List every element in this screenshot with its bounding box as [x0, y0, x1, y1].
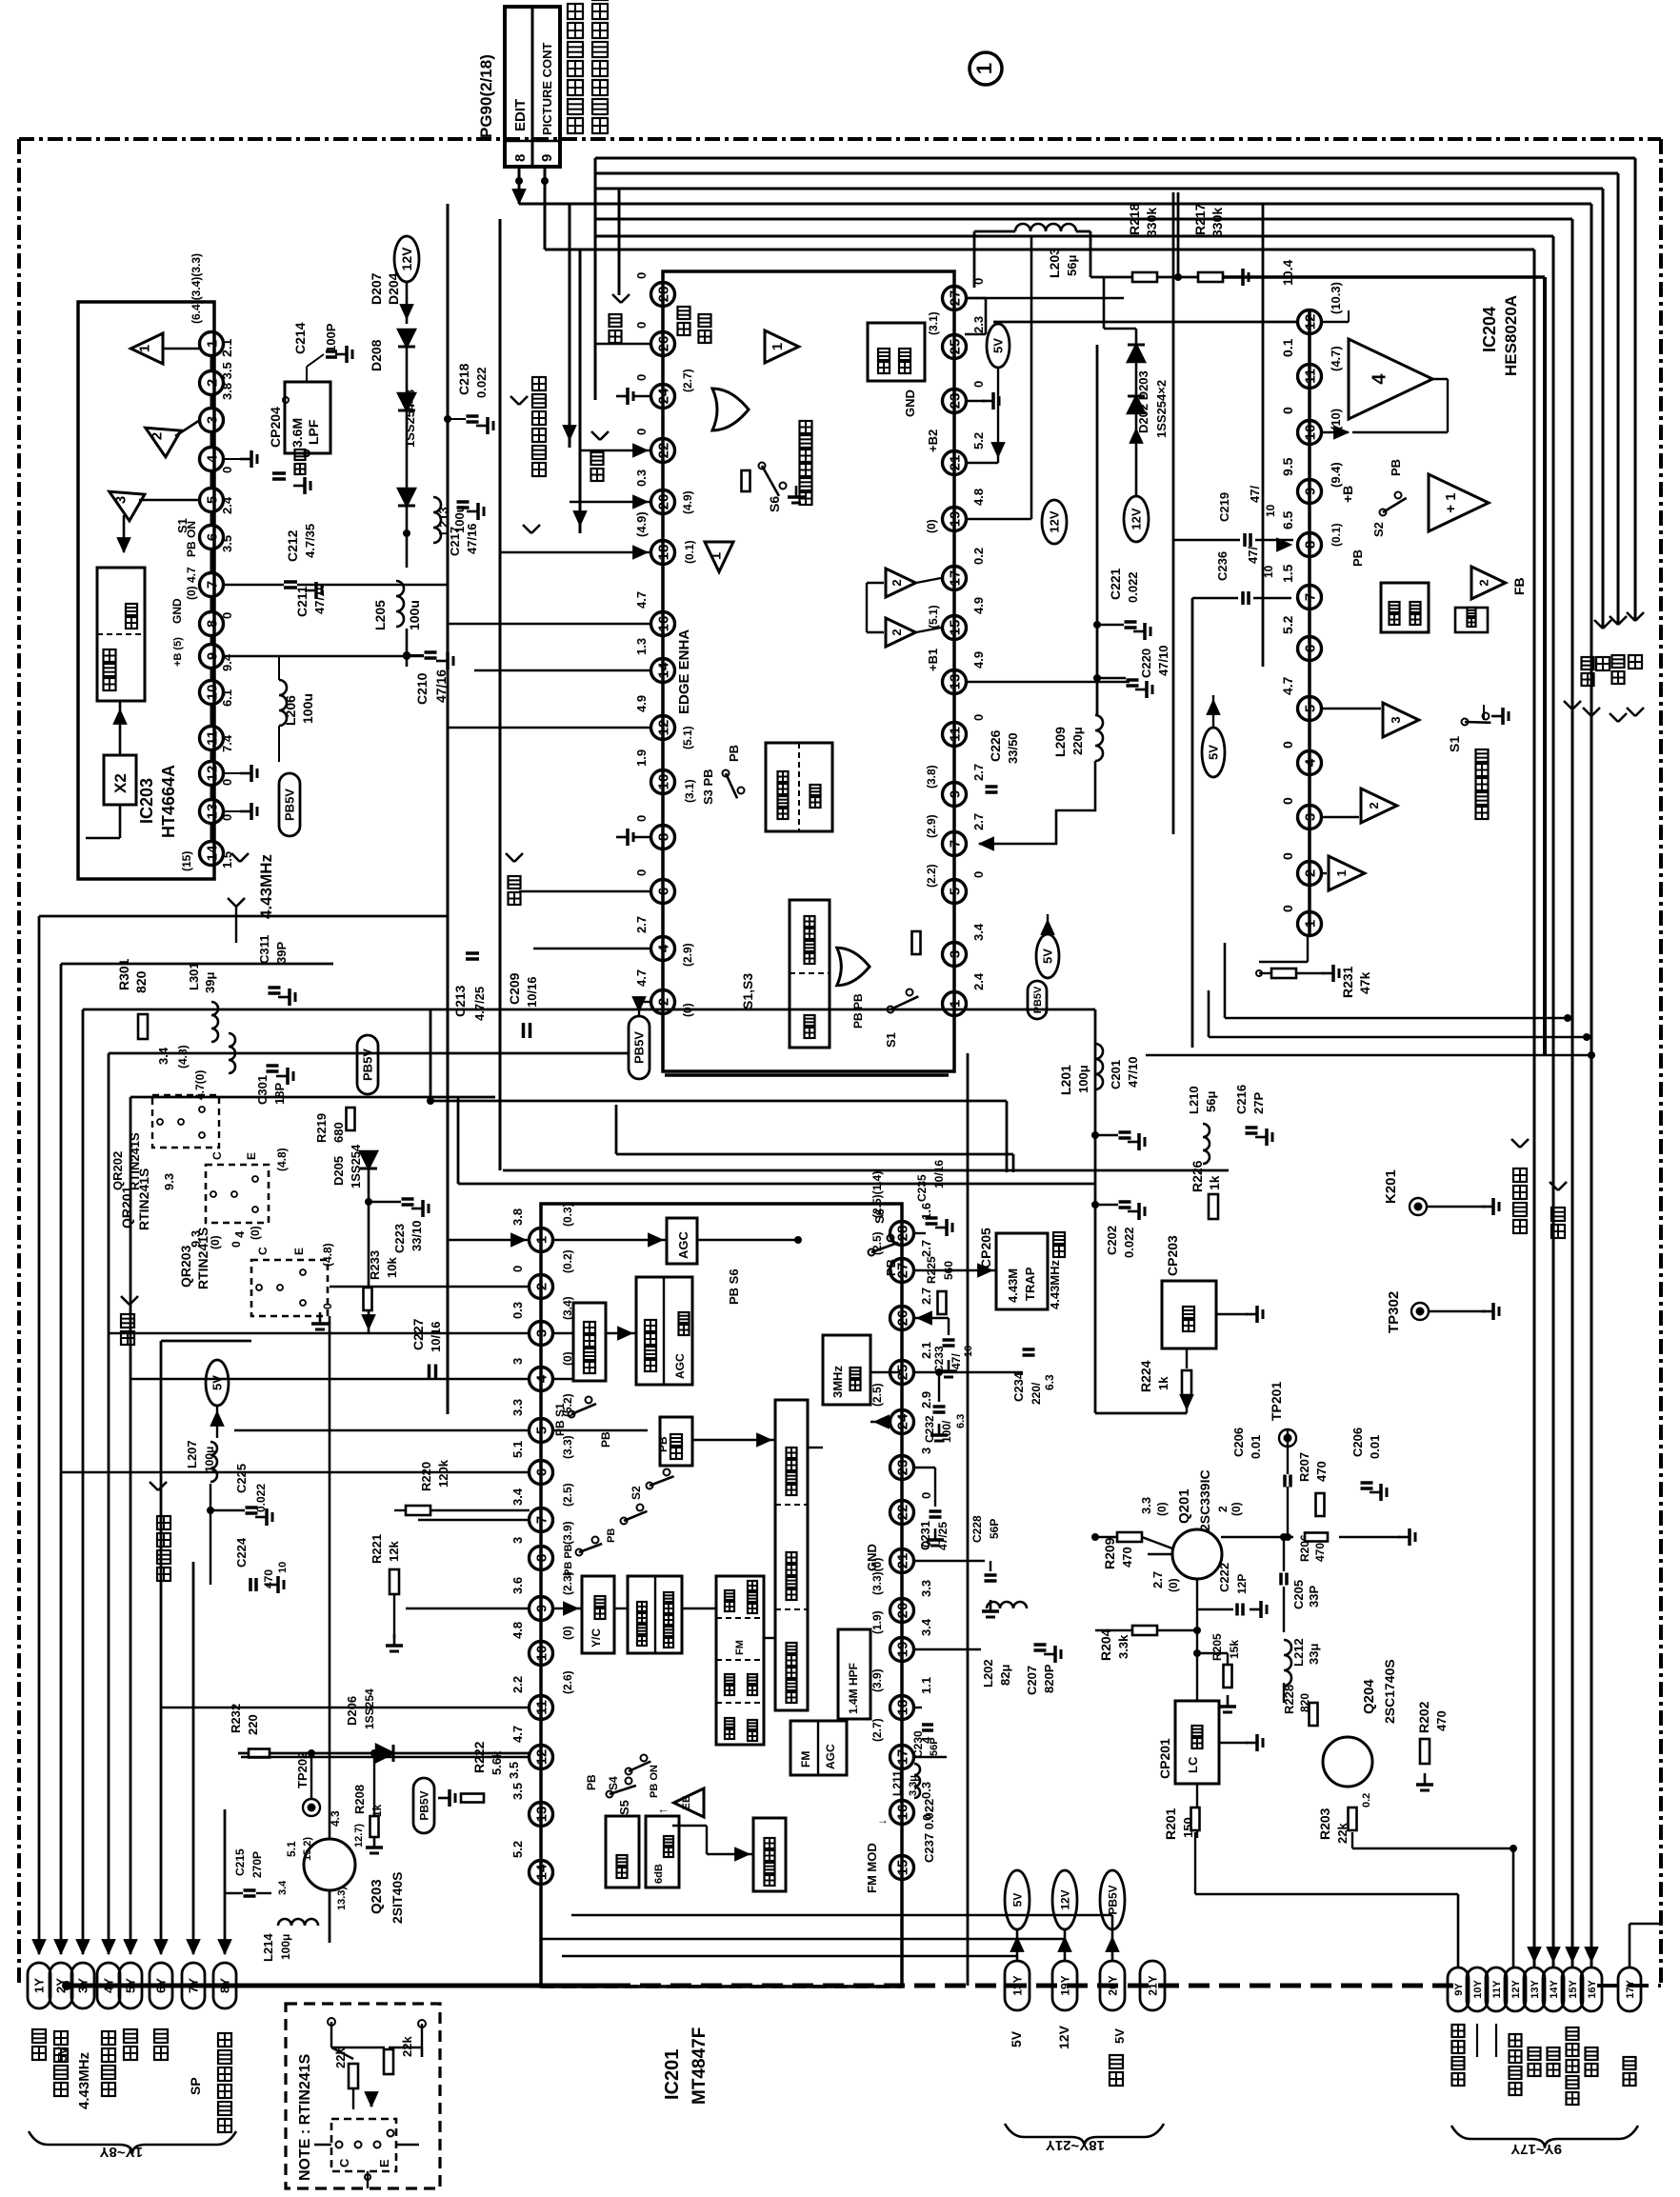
- svg-text:PB PB: PB PB: [563, 1544, 574, 1576]
- svg-text:PB: PB: [599, 1431, 612, 1448]
- svg-text:S5: S5: [617, 1800, 631, 1815]
- svg-text:C: C: [256, 1247, 270, 1255]
- svg-text:3.3: 3.3: [919, 1580, 933, 1597]
- svg-text:270P: 270P: [250, 1851, 264, 1878]
- svg-text:6.1: 6.1: [220, 689, 234, 707]
- svg-text:(0.2): (0.2): [561, 1249, 574, 1273]
- svg-text:2: 2: [655, 998, 671, 1006]
- svg-text:2: 2: [204, 379, 220, 387]
- svg-text:19Y: 19Y: [1058, 1975, 1071, 1995]
- svg-text:(6.4)(3.4)(3.3): (6.4)(3.4)(3.3): [190, 253, 203, 324]
- svg-text:3: 3: [112, 496, 129, 504]
- svg-text:4: 4: [533, 1374, 550, 1383]
- svg-text:220μ: 220μ: [1070, 727, 1085, 755]
- svg-text:FM MOD: FM MOD: [865, 1843, 879, 1893]
- svg-text:82μ: 82μ: [998, 1665, 1012, 1686]
- svg-text:IC201: IC201: [662, 2049, 683, 2100]
- svg-text:1.1: 1.1: [919, 1677, 933, 1694]
- svg-text:E: E: [292, 1248, 306, 1255]
- svg-text:0.022: 0.022: [1122, 1227, 1136, 1258]
- svg-text:FM: FM: [734, 1640, 746, 1655]
- svg-text:3: 3: [533, 1329, 550, 1337]
- svg-text:IC203: IC203: [137, 778, 156, 824]
- svg-text:220/: 220/: [1030, 1382, 1043, 1405]
- svg-text:4: 4: [204, 454, 220, 463]
- svg-text:S2: S2: [1371, 522, 1386, 537]
- svg-text:PB ON: PB ON: [649, 1765, 660, 1798]
- svg-text:1SS254×3: 1SS254×3: [403, 389, 417, 448]
- svg-text:560: 560: [942, 1261, 955, 1280]
- svg-text:28: 28: [655, 287, 671, 303]
- svg-text:(2.7): (2.7): [681, 369, 694, 392]
- svg-text:3.3: 3.3: [1139, 1497, 1153, 1514]
- svg-text:33/10: 33/10: [410, 1220, 424, 1251]
- svg-text:0: 0: [220, 612, 234, 619]
- svg-text:1: 1: [1334, 869, 1349, 876]
- svg-text:C228: C228: [970, 1515, 984, 1543]
- svg-text:C216: C216: [1234, 1085, 1249, 1114]
- svg-text:27: 27: [947, 290, 963, 307]
- svg-text:0.3: 0.3: [919, 1782, 933, 1799]
- svg-text:PB: PB: [606, 1528, 617, 1543]
- svg-text:13Y: 13Y: [1010, 1975, 1024, 1995]
- svg-text:5V: 5V: [991, 338, 1006, 353]
- svg-text:C234: C234: [1011, 1371, 1026, 1402]
- svg-text:15: 15: [947, 620, 963, 636]
- svg-text:0: 0: [634, 429, 649, 435]
- svg-text:5: 5: [533, 1427, 550, 1434]
- svg-text:19: 19: [894, 1642, 910, 1658]
- svg-text:3: 3: [1389, 716, 1403, 723]
- svg-text:3: 3: [947, 950, 963, 958]
- svg-text:2.7: 2.7: [1150, 1571, 1165, 1588]
- svg-text:C214: C214: [292, 322, 308, 354]
- svg-text:0.3: 0.3: [510, 1302, 525, 1319]
- svg-text:C226: C226: [988, 729, 1003, 762]
- svg-text:S1: S1: [1447, 736, 1462, 752]
- svg-text:1: 1: [136, 345, 152, 352]
- svg-text:C225: C225: [234, 1464, 249, 1493]
- svg-text:R201: R201: [1163, 1808, 1178, 1840]
- svg-text:S2: S2: [630, 1486, 643, 1500]
- svg-text:0: 0: [634, 374, 649, 381]
- svg-text:4.43MHz: 4.43MHz: [1048, 1259, 1062, 1309]
- svg-text:GND: GND: [865, 1544, 879, 1571]
- svg-text:PB5V: PB5V: [632, 1031, 647, 1064]
- svg-text:13: 13: [947, 674, 963, 690]
- svg-text:R231: R231: [1340, 966, 1355, 998]
- svg-text:12V: 12V: [1048, 510, 1062, 532]
- svg-text:13: 13: [204, 804, 220, 820]
- svg-text:4.7: 4.7: [1280, 676, 1295, 695]
- svg-text:2.4: 2.4: [971, 972, 986, 990]
- svg-text:1: 1: [770, 343, 786, 350]
- svg-text:8: 8: [533, 1554, 550, 1562]
- svg-text:0: 0: [971, 871, 986, 878]
- svg-text:S4: S4: [607, 1776, 620, 1790]
- svg-text:3.8 3.5: 3.8 3.5: [220, 362, 234, 400]
- svg-text:(4.8): (4.8): [176, 1045, 190, 1069]
- svg-text:5.1: 5.1: [285, 1841, 298, 1857]
- svg-text:2: 2: [890, 629, 904, 635]
- svg-text:10: 10: [277, 1562, 289, 1573]
- svg-text:R225: R225: [925, 1256, 938, 1284]
- svg-text:↓: ↓: [875, 1819, 889, 1825]
- svg-text:9Y~17Y: 9Y~17Y: [1510, 2141, 1562, 2157]
- svg-text:20Y: 20Y: [1106, 1975, 1119, 1995]
- svg-text:EDGE ENHA: EDGE ENHA: [676, 629, 692, 714]
- svg-text:S1,S3: S1,S3: [740, 973, 755, 1009]
- svg-text:MT4847F: MT4847F: [690, 2027, 710, 2105]
- svg-text:12V: 12V: [1056, 2025, 1071, 2049]
- svg-text:C207: C207: [1025, 1666, 1039, 1695]
- svg-text:TP201: TP201: [1269, 1382, 1284, 1421]
- svg-text:(2.6): (2.6): [561, 1670, 574, 1694]
- svg-text:+B2: +B2: [926, 429, 940, 452]
- svg-text:C224: C224: [234, 1537, 249, 1568]
- svg-text:100μ: 100μ: [203, 1447, 216, 1472]
- svg-text:GND: GND: [903, 389, 917, 417]
- svg-text:L202: L202: [981, 1659, 995, 1688]
- svg-text:C: C: [210, 1151, 224, 1160]
- svg-text:S1: S1: [175, 518, 190, 533]
- svg-text:QR203: QR203: [178, 1245, 193, 1288]
- svg-text:4.43M: 4.43M: [1006, 1268, 1020, 1303]
- svg-text:L209: L209: [1052, 727, 1068, 757]
- svg-text:2: 2: [1216, 1506, 1230, 1512]
- svg-text:12Y: 12Y: [1510, 1980, 1522, 1999]
- svg-text:(2.2): (2.2): [925, 864, 938, 888]
- svg-text:4.9: 4.9: [634, 695, 649, 712]
- svg-text:16: 16: [655, 616, 671, 632]
- svg-text:470: 470: [1314, 1461, 1329, 1482]
- svg-text:1Y~8Y: 1Y~8Y: [100, 2144, 143, 2160]
- svg-text:C235: C235: [915, 1174, 929, 1202]
- svg-text:10: 10: [204, 685, 220, 701]
- svg-text:15: 15: [894, 1860, 910, 1876]
- svg-text:R224: R224: [1138, 1360, 1153, 1392]
- svg-text:820: 820: [133, 970, 149, 993]
- svg-text:21: 21: [947, 455, 963, 471]
- svg-text:2: 2: [533, 1283, 550, 1290]
- svg-text:10Y: 10Y: [1472, 1980, 1484, 1999]
- svg-text:12k: 12k: [387, 1541, 401, 1562]
- svg-text:5.2: 5.2: [510, 1841, 525, 1858]
- svg-text:8Y: 8Y: [218, 1978, 232, 1993]
- svg-text:10/16: 10/16: [429, 1321, 443, 1352]
- svg-text:10: 10: [533, 1646, 550, 1662]
- svg-text:C233: C233: [932, 1346, 946, 1373]
- svg-text:0.1: 0.1: [1280, 338, 1295, 357]
- svg-text:18P: 18P: [272, 1083, 287, 1105]
- svg-text:9: 9: [539, 154, 555, 162]
- svg-text:0: 0: [1280, 905, 1295, 912]
- svg-text:4.8: 4.8: [510, 1622, 525, 1639]
- svg-text:E: E: [377, 2159, 391, 2167]
- svg-text:0.022: 0.022: [1126, 571, 1140, 603]
- svg-text:56P: 56P: [988, 1519, 1001, 1539]
- svg-text:0: 0: [920, 1814, 934, 1821]
- svg-text:(1.9): (1.9): [870, 1610, 884, 1634]
- svg-text:10k: 10k: [385, 1257, 399, 1278]
- svg-text:11: 11: [204, 730, 220, 746]
- svg-text:L203: L203: [1047, 248, 1062, 278]
- svg-text:R209: R209: [1102, 1537, 1117, 1569]
- svg-text:8: 8: [655, 833, 671, 841]
- svg-text:+ 1: + 1: [1443, 492, 1459, 512]
- svg-text:26: 26: [894, 1310, 910, 1327]
- svg-text:3: 3: [919, 1448, 933, 1454]
- svg-text:(0): (0): [925, 519, 938, 533]
- svg-text:C217: C217: [448, 527, 462, 556]
- svg-text:100μ: 100μ: [279, 1934, 292, 1960]
- svg-text:0.01: 0.01: [1249, 1435, 1263, 1459]
- svg-text:12: 12: [204, 766, 220, 782]
- svg-text:26: 26: [655, 336, 671, 352]
- svg-text:220: 220: [246, 1714, 260, 1735]
- svg-text:3.6: 3.6: [510, 1577, 525, 1594]
- svg-text:1k: 1k: [1207, 1175, 1222, 1190]
- svg-text:22k: 22k: [333, 2047, 348, 2068]
- svg-text:C218: C218: [456, 363, 471, 395]
- svg-text:RTIN241S: RTIN241S: [136, 1168, 151, 1230]
- svg-text:9Y: 9Y: [1453, 1983, 1465, 1996]
- svg-text:470: 470: [1120, 1547, 1134, 1568]
- svg-text:(2.9): (2.9): [925, 814, 938, 838]
- svg-text:(0): (0): [209, 1235, 222, 1249]
- svg-text:Q203: Q203: [369, 1879, 385, 1914]
- svg-text:C230: C230: [911, 1730, 925, 1758]
- svg-text:24: 24: [894, 1413, 910, 1429]
- svg-text:0.2: 0.2: [971, 548, 986, 565]
- svg-text:0: 0: [1280, 741, 1295, 749]
- svg-text:4.7: 4.7: [634, 591, 649, 609]
- svg-text:K201: K201: [1383, 1169, 1399, 1204]
- svg-text:PB: PB: [656, 1436, 670, 1452]
- svg-text:3.4: 3.4: [971, 923, 986, 941]
- svg-text:C201: C201: [1109, 1060, 1123, 1089]
- svg-text:(2.7): (2.7): [870, 1718, 884, 1742]
- svg-text:33μ: 33μ: [1307, 1644, 1321, 1665]
- svg-text:SP: SP: [188, 2077, 203, 2095]
- svg-text:7.4: 7.4: [220, 734, 234, 752]
- svg-text:C221: C221: [1108, 568, 1123, 600]
- svg-text:0: 0: [510, 1266, 525, 1272]
- svg-text:6.3: 6.3: [1043, 1374, 1056, 1390]
- svg-text:C: C: [337, 2158, 351, 2167]
- svg-text:8: 8: [204, 620, 220, 628]
- svg-text:1Y: 1Y: [32, 1978, 47, 1993]
- svg-text:R226: R226: [1190, 1160, 1205, 1192]
- svg-text:Q204: Q204: [1361, 1679, 1377, 1714]
- svg-text:5: 5: [947, 888, 963, 895]
- svg-text:C205: C205: [1291, 1580, 1306, 1609]
- svg-text:(0) 4.7: (0) 4.7: [185, 567, 198, 600]
- svg-text:4.43MHz: 4.43MHz: [257, 854, 275, 919]
- svg-text:5V: 5V: [1207, 745, 1221, 760]
- svg-text:D208: D208: [369, 339, 384, 371]
- svg-text:18: 18: [894, 1700, 910, 1716]
- svg-text:11: 11: [533, 1700, 550, 1715]
- svg-text:0: 0: [220, 467, 234, 473]
- svg-text:3.3μ: 3.3μ: [908, 1775, 919, 1796]
- svg-text:L205: L205: [372, 600, 388, 630]
- svg-text:+B (5): +B (5): [172, 637, 184, 667]
- svg-text:4.8: 4.8: [971, 489, 986, 506]
- svg-text:5.1: 5.1: [510, 1441, 525, 1458]
- svg-text:4.7/35: 4.7/35: [303, 524, 317, 558]
- svg-text:PG90(2/18): PG90(2/18): [477, 54, 495, 138]
- svg-text:C206: C206: [1350, 1428, 1365, 1457]
- svg-text:L210: L210: [1187, 1086, 1201, 1114]
- svg-text:5V: 5V: [1010, 1893, 1024, 1907]
- svg-text:0: 0: [971, 714, 986, 721]
- svg-text:100u: 100u: [300, 693, 315, 724]
- svg-text:4.43MHz: 4.43MHz: [76, 2052, 92, 2109]
- svg-text:39P: 39P: [274, 942, 289, 964]
- svg-text:1: 1: [947, 1000, 963, 1008]
- svg-text:24: 24: [655, 388, 671, 404]
- svg-text:13.3): 13.3): [336, 1887, 348, 1910]
- svg-text:5V: 5V: [1112, 2028, 1127, 2044]
- svg-text:0: 0: [220, 814, 234, 821]
- svg-text:56P: 56P: [929, 1737, 940, 1756]
- svg-text:(3.3): (3.3): [561, 1435, 574, 1459]
- svg-text:12: 12: [655, 720, 671, 736]
- svg-text:4Y: 4Y: [102, 1978, 116, 1993]
- svg-text:0: 0: [634, 272, 649, 279]
- svg-text:PB: PB: [1350, 549, 1365, 567]
- svg-text:L207: L207: [185, 1440, 199, 1468]
- svg-text:47/10: 47/10: [1156, 645, 1170, 676]
- svg-text:(0.1): (0.1): [683, 540, 696, 564]
- svg-text:3.5: 3.5: [220, 535, 234, 552]
- svg-text:(2.5): (2.5): [561, 1483, 574, 1507]
- svg-text:C301: C301: [255, 1075, 270, 1105]
- svg-text:1.3: 1.3: [634, 638, 649, 655]
- svg-text:0: 0: [321, 1303, 334, 1309]
- svg-text:2.7: 2.7: [634, 916, 649, 933]
- svg-text:FB: FB: [1511, 577, 1527, 595]
- svg-text:33P: 33P: [1307, 1586, 1321, 1608]
- svg-text:12V: 12V: [1058, 1889, 1071, 1909]
- svg-text:6dB: 6dB: [653, 1864, 665, 1884]
- svg-text:0: 0: [1280, 852, 1295, 860]
- svg-text:(0): (0): [561, 1626, 574, 1640]
- svg-text:100P: 100P: [324, 323, 338, 352]
- svg-text:22: 22: [655, 443, 671, 459]
- svg-text:47/10: 47/10: [1126, 1056, 1140, 1088]
- svg-text:0: 0: [634, 322, 649, 329]
- svg-text:2.3: 2.3: [971, 316, 986, 333]
- svg-text:PB5V: PB5V: [283, 789, 297, 821]
- svg-text:R220: R220: [419, 1462, 433, 1491]
- svg-text:16Y: 16Y: [1587, 1980, 1598, 1999]
- svg-text:2.7: 2.7: [971, 764, 986, 781]
- svg-text:5V: 5V: [210, 1375, 225, 1390]
- svg-text:1.4M HPF: 1.4M HPF: [847, 1663, 860, 1714]
- svg-text:5Y: 5Y: [124, 1978, 138, 1993]
- svg-text:680: 680: [331, 1122, 346, 1143]
- svg-text:IC204: IC204: [1480, 307, 1499, 352]
- svg-text:0: 0: [971, 381, 986, 388]
- svg-text:2: 2: [1476, 579, 1490, 586]
- svg-text:3.3k: 3.3k: [1116, 1634, 1130, 1659]
- svg-text:5.2: 5.2: [971, 432, 986, 449]
- svg-text:4.7: 4.7: [510, 1726, 525, 1743]
- svg-text:12.7): 12.7): [353, 1824, 365, 1847]
- svg-text:(3.1): (3.1): [927, 311, 940, 335]
- svg-text:3.6M: 3.6M: [290, 418, 305, 448]
- svg-text:17Y: 17Y: [1625, 1980, 1636, 1999]
- svg-text:0: 0: [634, 815, 649, 822]
- svg-text:2.2: 2.2: [510, 1676, 525, 1693]
- svg-text:6: 6: [655, 888, 671, 895]
- svg-text:10.4: 10.4: [1280, 260, 1295, 286]
- svg-text:2SC1740S: 2SC1740S: [1382, 1659, 1397, 1724]
- svg-text:9: 9: [533, 1605, 550, 1612]
- svg-text:470: 470: [1434, 1710, 1449, 1731]
- svg-text:LC: LC: [1186, 1756, 1200, 1773]
- svg-text:7: 7: [204, 581, 220, 589]
- svg-text:23: 23: [947, 393, 963, 409]
- svg-text:(5.1): (5.1): [681, 726, 694, 749]
- svg-text:14Y: 14Y: [1549, 1980, 1560, 1999]
- svg-text:CP201: CP201: [1157, 1738, 1172, 1779]
- svg-text:PICTURE CONT: PICTURE CONT: [540, 42, 554, 135]
- svg-text:C209: C209: [507, 972, 522, 1005]
- svg-text:330k: 330k: [1210, 208, 1225, 237]
- svg-text:S1: S1: [884, 1032, 898, 1048]
- svg-text:(15): (15): [180, 851, 193, 871]
- svg-text:CP205: CP205: [978, 1228, 993, 1268]
- svg-text:33/50: 33/50: [1006, 732, 1020, 764]
- svg-text:18: 18: [655, 545, 671, 561]
- svg-text:E: E: [245, 1152, 258, 1160]
- svg-text:↑: ↑: [655, 1808, 670, 1815]
- svg-text:12V: 12V: [1130, 508, 1144, 529]
- svg-text:7: 7: [533, 1516, 550, 1524]
- svg-text:CP204: CP204: [268, 407, 283, 448]
- svg-text:3: 3: [510, 1358, 525, 1365]
- svg-text:CP203: CP203: [1165, 1235, 1180, 1276]
- svg-text:(10.3): (10.3): [1329, 282, 1343, 314]
- svg-text:1: 1: [533, 1236, 550, 1244]
- svg-text:(4.9): (4.9): [634, 511, 649, 537]
- svg-text:28: 28: [894, 1226, 910, 1242]
- svg-text:10: 10: [1264, 504, 1277, 517]
- svg-text:11Y: 11Y: [1491, 1980, 1503, 1999]
- svg-text:PB: PB: [1389, 459, 1403, 476]
- svg-text:C222: C222: [1217, 1563, 1231, 1592]
- svg-text:2.4: 2.4: [220, 496, 234, 514]
- svg-text:6.5: 6.5: [1280, 510, 1295, 529]
- svg-text:L214: L214: [261, 1933, 275, 1962]
- svg-text:100μ: 100μ: [1076, 1065, 1090, 1093]
- svg-text:19: 19: [947, 511, 963, 528]
- svg-text:QR202: QR202: [110, 1151, 125, 1190]
- svg-text:0.022: 0.022: [474, 367, 489, 398]
- svg-text:+B: +B: [1340, 486, 1355, 503]
- svg-text:(0.3): (0.3): [561, 1203, 574, 1227]
- svg-text:56μ: 56μ: [1204, 1091, 1218, 1112]
- svg-text:21Y: 21Y: [1146, 1975, 1159, 1995]
- svg-text:L211: L211: [890, 1770, 904, 1796]
- svg-text:LPF: LPF: [306, 419, 321, 445]
- svg-text:470: 470: [1313, 1543, 1327, 1562]
- svg-text:5V: 5V: [55, 2047, 70, 2062]
- svg-text:EDIT: EDIT: [512, 99, 529, 131]
